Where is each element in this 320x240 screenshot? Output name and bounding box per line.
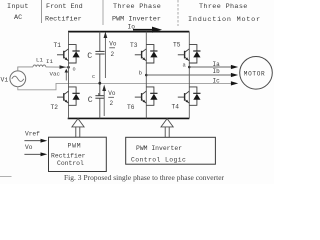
svg-text:Vo: Vo	[109, 41, 117, 48]
svg-text:Vref: Vref	[25, 130, 40, 137]
svg-text:AC: AC	[14, 14, 22, 22]
svg-text:Fig. 3 Proposed single phase t: Fig. 3 Proposed single phase to three ph…	[64, 173, 225, 182]
svg-text:C: C	[87, 52, 92, 61]
svg-text:2: 2	[111, 51, 115, 58]
svg-text:T2: T2	[51, 104, 59, 111]
svg-text:T3: T3	[130, 42, 138, 49]
svg-text:T1: T1	[54, 42, 62, 49]
svg-text:PWM Inverter: PWM Inverter	[112, 16, 161, 24]
svg-text:Rectifier: Rectifier	[51, 152, 86, 159]
svg-text:Front End: Front End	[46, 3, 83, 11]
svg-text:T5: T5	[173, 41, 181, 48]
svg-text:Ib: Ib	[213, 68, 221, 75]
svg-text:b: b	[139, 71, 142, 77]
svg-text:C: C	[88, 96, 93, 105]
svg-text:c: c	[92, 74, 95, 80]
svg-text:PWM Inverter: PWM Inverter	[136, 145, 182, 152]
svg-text:Vo: Vo	[25, 144, 33, 151]
svg-text:Three Phase: Three Phase	[113, 3, 161, 11]
svg-text:Vac: Vac	[50, 71, 61, 78]
svg-text:Ia: Ia	[213, 61, 221, 68]
svg-text:L1: L1	[36, 57, 43, 64]
svg-text:Three Phase: Three Phase	[199, 3, 248, 11]
svg-text:a: a	[183, 62, 187, 68]
svg-text:Vi: Vi	[1, 77, 9, 84]
svg-text:Control: Control	[57, 160, 84, 167]
svg-text:Input: Input	[7, 3, 29, 11]
svg-text:T4: T4	[172, 104, 180, 111]
svg-text:Control Logic: Control Logic	[131, 157, 186, 164]
svg-text:Ic: Ic	[213, 78, 221, 85]
svg-text:o: o	[73, 67, 76, 73]
svg-text:Induction Motor: Induction Motor	[188, 16, 261, 24]
svg-text:I1: I1	[46, 58, 53, 65]
svg-text:Vo: Vo	[108, 90, 116, 97]
svg-text:PWM: PWM	[68, 143, 82, 150]
svg-text:T6: T6	[127, 104, 135, 111]
svg-text:2: 2	[110, 100, 114, 107]
svg-text:Rectifier: Rectifier	[45, 16, 82, 24]
svg-text:MOTOR: MOTOR	[244, 70, 266, 77]
